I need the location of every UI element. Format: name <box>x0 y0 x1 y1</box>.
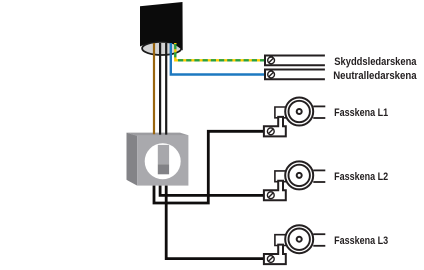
F2 fuse cap outer circle <box>285 161 313 189</box>
neutral busbar bar body <box>265 70 325 80</box>
wire black 2 (cable to switch S1) <box>165 43 167 135</box>
F3 center contact <box>297 237 302 242</box>
switch S1 : face circle <box>145 143 181 179</box>
earth busbar PE (Skyddsledarskena) <box>265 56 325 66</box>
F2 output pin lower <box>313 181 325 183</box>
switch S1 : rocker lower part <box>158 164 169 174</box>
F2 output pin upper <box>313 169 325 171</box>
svg-text:Neutralledarskena: Neutralledarskena <box>333 70 417 82</box>
F3 output pin lower <box>313 245 325 247</box>
wire black L3 (switch S1 to fuse F3 terminal) <box>166 186 263 259</box>
F2 center contact <box>297 173 302 178</box>
incoming supply cable W1 : black sheath body <box>140 2 183 51</box>
wire black 1 (cable to switch S1) <box>159 43 161 135</box>
switch S1 : rocker upper part <box>158 145 169 164</box>
F2 screw terminal <box>267 192 274 199</box>
fuse holder F3 (Fasskena L3) <box>264 225 325 264</box>
F2 fuse cap inner ring <box>289 165 310 186</box>
neutral busbar N (Neutralledarskena) <box>265 70 325 80</box>
F2 terminal block <box>264 181 286 201</box>
wire black L1 (switch S1 to fuse F1 terminal) <box>154 131 263 203</box>
svg-text:Skyddsledarskena: Skyddsledarskena <box>334 56 417 68</box>
earth busbar bar body <box>265 56 325 66</box>
earth busbar screw terminal <box>268 57 275 64</box>
F1 output pin upper <box>313 105 325 107</box>
switch S1 : box left face <box>127 133 138 186</box>
neutral busbar screw terminal <box>268 71 275 78</box>
F1 holder base rect <box>275 107 287 118</box>
F3 screw terminal <box>267 256 274 263</box>
F3 terminal block <box>264 245 286 265</box>
F3 output pin upper <box>313 233 325 235</box>
F1 center contact <box>297 109 302 114</box>
F3 holder base rect <box>275 235 287 246</box>
svg-text:Fasskena L3: Fasskena L3 <box>334 235 388 247</box>
fuse holder F1 (Fasskena L1) <box>264 98 325 137</box>
F1 output pin lower <box>313 117 325 119</box>
F1 fuse cap inner ring <box>289 101 310 122</box>
F3 fuse cap outer circle <box>285 225 313 253</box>
F1 fuse cap outer circle <box>285 98 313 126</box>
F3 fuse cap inner ring <box>289 229 310 250</box>
wire green-yellow earth (cable to earth busbar) <box>175 43 264 60</box>
svg-text:Fasskena L1: Fasskena L1 <box>334 107 388 119</box>
wire blue neutral (cable to neutral busbar) <box>171 43 264 75</box>
wire brown phase (cable to switch S1) <box>153 43 155 134</box>
F1 terminal block <box>264 117 286 136</box>
svg-text:Fasskena L2: Fasskena L2 <box>334 171 388 183</box>
fuse holder F2 (Fasskena L2) <box>264 161 325 200</box>
incoming supply cable W1 : cut end ellipse <box>142 42 181 55</box>
wire black L2 (switch S1 to fuse F2 terminal) <box>160 186 263 196</box>
switch S1 : box top face <box>127 133 189 136</box>
switch S1 : box front face <box>137 136 188 186</box>
F1 screw terminal <box>267 128 274 135</box>
F2 holder base rect <box>275 171 287 182</box>
